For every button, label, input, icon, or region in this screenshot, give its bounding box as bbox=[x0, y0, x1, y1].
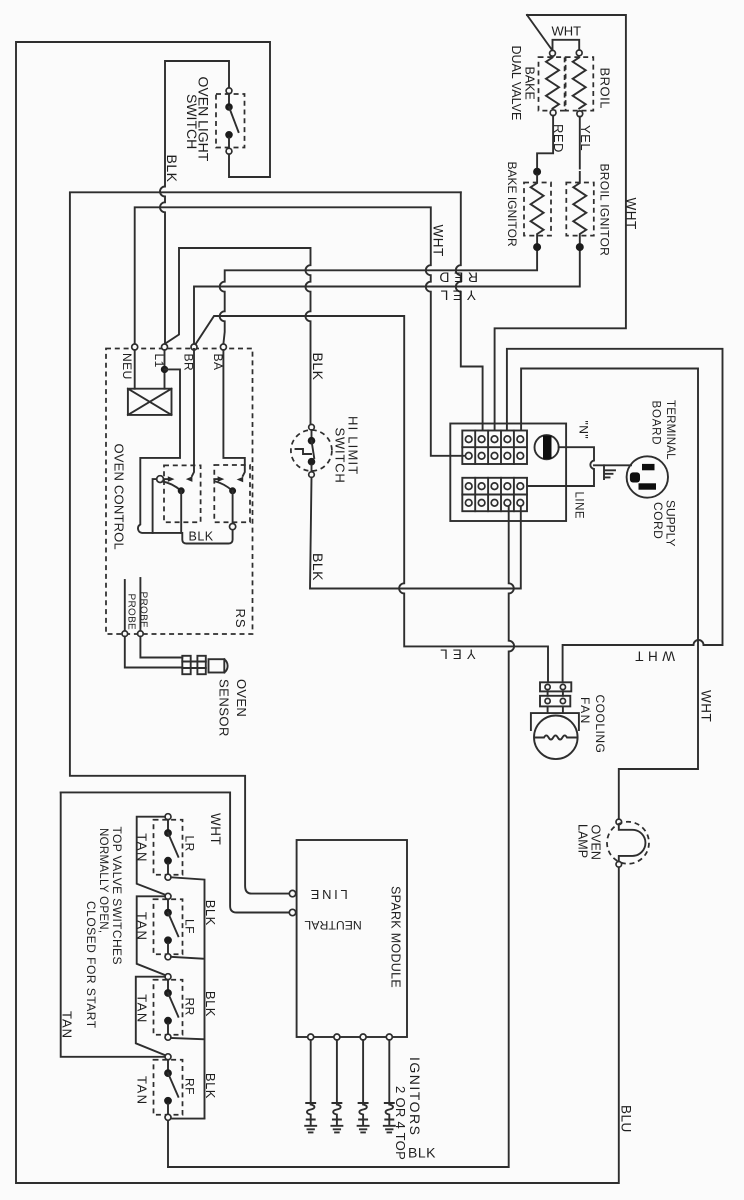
svg-text:TAN: TAN bbox=[60, 1011, 75, 1039]
wire BR into relay 1 with arrow bbox=[192, 349, 194, 476]
wire YEL BR terminal to broil ignitor bbox=[194, 251, 580, 345]
hi-limit switch top terminal bbox=[309, 424, 315, 430]
svg-text:LAMP: LAMP bbox=[576, 824, 590, 858]
valve switch RR wire dot2 to bottom bbox=[167, 1024, 169, 1034]
wire BLK terminal board lower col4 to bottom bus (hops at 588 and fold) bbox=[168, 506, 514, 1167]
svg-text:YEL: YEL bbox=[578, 125, 593, 151]
svg-text:BR: BR bbox=[182, 354, 196, 372]
valve switch LF bottom terminal bbox=[165, 954, 171, 960]
probe terminal 2 bbox=[138, 631, 144, 637]
fan motor leads bbox=[548, 706, 563, 713]
svg-text:2 OR 4 TOP: 2 OR 4 TOP bbox=[393, 1086, 408, 1160]
fan connector links bbox=[548, 691, 563, 695]
valve switch LR bottom terminal bbox=[165, 874, 171, 880]
valve switch RR bottom terminal bbox=[165, 1034, 171, 1040]
wire RF bottom to bottom BLK bus bbox=[167, 1122, 169, 1167]
valve switch LR wire dot2 to bottom bbox=[167, 864, 169, 875]
svg-text:RF: RF bbox=[182, 1078, 196, 1095]
oven control L1 terminal bbox=[162, 344, 168, 350]
svg-text:BLK: BLK bbox=[203, 1073, 218, 1099]
svg-text:BLK: BLK bbox=[310, 553, 326, 581]
cooling fan connector block 2 bbox=[540, 696, 570, 707]
svg-text:BROIL IGNITOR: BROIL IGNITOR bbox=[598, 164, 612, 257]
wire L1 branch to relay commons bbox=[138, 369, 233, 543]
svg-text:CORD: CORD bbox=[651, 502, 665, 539]
strain relief symbol bbox=[604, 465, 615, 479]
relay 1 blade bbox=[163, 482, 182, 491]
wire NEU oven control to terminal board col1 (hops RED,YEL) bbox=[135, 207, 466, 455]
ignitor electrode 3 bbox=[359, 1040, 368, 1103]
wire TAN left bus to RF switch top bbox=[61, 792, 165, 1056]
relay 1 contact dot bbox=[178, 488, 184, 494]
fan connector circles 2 bbox=[545, 698, 550, 703]
oven control NEU terminal bbox=[132, 344, 138, 350]
spark module output terminal 4 bbox=[386, 1034, 392, 1040]
ignitor electrode 2 bbox=[332, 1040, 341, 1103]
spark module box bbox=[297, 840, 407, 1037]
valve switch RF dashed box bbox=[154, 1060, 183, 1115]
wire NEU terminal to transformer bbox=[134, 350, 136, 389]
svg-text:PROBE: PROBE bbox=[125, 594, 136, 631]
valve switch LF contact dot 2 bbox=[165, 937, 172, 944]
valve switch RR contact dot 1 bbox=[165, 990, 172, 997]
valve switch LR contact dot 2 bbox=[165, 857, 172, 864]
oven sensor connector block 2 bbox=[197, 656, 205, 674]
hi-limit switch contact dot 2 bbox=[308, 458, 315, 465]
wire BLU lamp-return loop (lamp bottom, bottom border, left border, top border, light switch) bbox=[16, 42, 619, 1183]
svg-text:"N": "N" bbox=[576, 421, 590, 440]
svg-text:FAN: FAN bbox=[578, 697, 592, 725]
valve switch RF wire to dot1 bbox=[167, 1060, 169, 1070]
svg-text:BA: BA bbox=[211, 354, 225, 371]
broil ignitor dashed box bbox=[566, 183, 594, 236]
wire BA into relay 2 with arrow bbox=[223, 350, 244, 476]
oven control BR terminal bbox=[191, 344, 197, 350]
relay 2 blade bbox=[216, 482, 233, 491]
valve switch RR wire to dot1 bbox=[167, 980, 169, 990]
valve switch LF wire to dot1 bbox=[167, 899, 169, 909]
broil valve terminal top bbox=[576, 50, 582, 56]
oven control dashed box bbox=[106, 349, 253, 635]
wire BLK L1 to hi-limit switch (hops RED,YEL,BR-fan wire) bbox=[165, 248, 311, 424]
valve switch LF contact dot 1 bbox=[165, 909, 172, 916]
spark module output terminal 3 bbox=[360, 1034, 366, 1040]
oven sensor connector block 1 bbox=[182, 656, 190, 674]
wire cord to plug bbox=[594, 464, 631, 466]
svg-text:BAKE: BAKE bbox=[523, 67, 537, 100]
spark module NEUTRAL terminal bbox=[289, 909, 295, 915]
oven lamp filament horseshoe bbox=[619, 825, 646, 862]
valve switch LF blade bbox=[168, 913, 178, 937]
svg-text:OVEN CONTROL: OVEN CONTROL bbox=[112, 444, 127, 550]
svg-text:WHT: WHT bbox=[431, 225, 446, 257]
broil valve dashed box bbox=[566, 57, 594, 111]
hi-limit switch thermal step bbox=[296, 449, 312, 454]
terminal board upper grid bbox=[462, 431, 527, 465]
svg-text:OVEN: OVEN bbox=[588, 825, 602, 860]
terminal board lower grid bbox=[462, 478, 527, 511]
svg-text:BAKE IGNITOR: BAKE IGNITOR bbox=[505, 162, 519, 247]
wire N terminal to cord split bbox=[527, 447, 594, 486]
fan motor circle bbox=[534, 716, 578, 760]
svg-text:LR: LR bbox=[182, 836, 196, 852]
relay 2 fixed lead and arrow bbox=[214, 478, 217, 480]
svg-text:RED: RED bbox=[551, 124, 566, 153]
svg-text:LINE: LINE bbox=[573, 492, 585, 520]
svg-text:SPARK MODULE: SPARK MODULE bbox=[389, 886, 403, 988]
oven light switch bottom terminal bbox=[226, 148, 232, 154]
relay 2 dashed box bbox=[214, 465, 250, 522]
svg-text:YEL: YEL bbox=[436, 288, 476, 304]
svg-text:NEU: NEU bbox=[120, 353, 134, 380]
relay 2 contact drop bbox=[232, 491, 234, 524]
probe stub 2 bbox=[139, 578, 141, 631]
wire L1 terminal through junction to transformer bbox=[164, 350, 166, 389]
oven control BA terminal bbox=[220, 344, 226, 350]
wire BLK bus LF join bbox=[171, 957, 205, 1038]
valve switch RF contact dot 1 bbox=[165, 1070, 172, 1077]
svg-text:RR: RR bbox=[182, 998, 196, 1016]
valve switch LR contact dot 1 bbox=[165, 830, 172, 837]
hi-limit switch wire dot2 to bottom bbox=[311, 465, 313, 472]
probe stub 1 bbox=[124, 580, 126, 631]
oven lamp bottom terminal bbox=[616, 862, 622, 868]
junction dot L1 bbox=[161, 366, 167, 372]
svg-text:LINE: LINE bbox=[308, 887, 348, 902]
wire TAN staircase LF bbox=[137, 896, 166, 975]
bake ignitor bottom junction dot bbox=[534, 244, 541, 251]
oven sensor dome cap bbox=[224, 659, 227, 672]
valve switch RF contact dot 2 bbox=[165, 1097, 172, 1104]
svg-text:BLK: BLK bbox=[310, 353, 326, 381]
valve switch RF wire dot2 to bottom bbox=[167, 1104, 169, 1115]
wire TAN staircase RR bbox=[136, 977, 166, 1056]
oven lamp top terminal bbox=[616, 819, 622, 825]
relay 1 contact drop bbox=[180, 491, 182, 533]
bake valve terminal bottom bbox=[550, 110, 556, 116]
svg-text:TAN: TAN bbox=[135, 1076, 150, 1106]
hi-limit switch wire to dot1 bbox=[311, 430, 313, 438]
wire WHT top border to terminal board col3 bbox=[495, 15, 626, 429]
relay 1 pivot bbox=[157, 476, 164, 483]
broil valve coil bbox=[573, 58, 586, 109]
svg-text:BROIL: BROIL bbox=[598, 68, 613, 110]
wire YEL broil valve to broil ignitor bbox=[579, 117, 581, 169]
valve switch LF dashed box bbox=[154, 899, 183, 954]
svg-text:BLK: BLK bbox=[203, 991, 218, 1017]
bake valve coil bbox=[546, 58, 559, 109]
svg-text:WHT: WHT bbox=[699, 690, 714, 722]
fan motor housing bbox=[531, 713, 579, 730]
wire BLK bus RF join bbox=[171, 1118, 205, 1120]
svg-text:BLU: BLU bbox=[619, 1105, 634, 1133]
broil ignitor bottom junction dot bbox=[576, 244, 583, 251]
oven light switch blade bbox=[229, 107, 239, 132]
valve switch RF top terminal bbox=[165, 1054, 171, 1060]
spark module LINE terminal bbox=[289, 890, 295, 896]
wire probe 1 to oven sensor bbox=[125, 637, 183, 668]
transformer X-box bbox=[128, 389, 172, 415]
ignitor electrode 4 bbox=[385, 1040, 394, 1103]
wire RED bake valve to bake ignitor bbox=[537, 116, 553, 169]
wire TAN staircase LR bbox=[137, 817, 166, 895]
broil ignitor coil bbox=[573, 172, 586, 244]
svg-text:TAN: TAN bbox=[135, 833, 150, 863]
valve switch LR top terminal bbox=[165, 814, 171, 820]
svg-text:WHT: WHT bbox=[631, 649, 675, 664]
N neutral terminal bar bbox=[543, 436, 552, 460]
svg-text:DUAL VALVE: DUAL VALVE bbox=[509, 46, 523, 121]
wire BLK bus RR join bbox=[171, 1038, 205, 1118]
oven light switch contact dot 2 bbox=[226, 132, 233, 139]
wire BLK oven light switch to L1 (hops over WHT,NEU buses) bbox=[160, 61, 229, 344]
wire WHT bus right drop to terminal board col2 (hops RED,YEL) bbox=[456, 192, 483, 429]
wire BLK bus from LR bottom bbox=[171, 877, 205, 957]
svg-text:SENSOR: SENSOR bbox=[216, 679, 231, 737]
relay 1 pivot lead bbox=[153, 479, 157, 533]
svg-text:WHT: WHT bbox=[208, 813, 223, 845]
svg-text:TOP VALVE SWITCHES: TOP VALVE SWITCHES bbox=[110, 827, 124, 965]
hi-limit switch contact dot 1 bbox=[308, 437, 315, 444]
svg-text:TAN: TAN bbox=[135, 994, 150, 1024]
broil valve terminal bottom bbox=[577, 111, 583, 117]
svg-text:TERMINAL: TERMINAL bbox=[664, 400, 676, 460]
oven sensor link wires bbox=[191, 662, 198, 669]
bake valve dashed box bbox=[539, 57, 565, 111]
hi-limit switch dashed circle bbox=[291, 430, 332, 471]
svg-text:WHT: WHT bbox=[624, 198, 639, 230]
fan connector circles 1 bbox=[545, 684, 550, 689]
svg-text:YEL: YEL bbox=[435, 647, 476, 662]
relay 1 moving arrow bbox=[164, 478, 168, 480]
oven lamp dashed circle bbox=[607, 822, 649, 864]
relay 2 bottom terminal bbox=[230, 524, 236, 530]
bake ignitor coil bbox=[531, 175, 544, 244]
svg-text:SWITCH: SWITCH bbox=[332, 428, 347, 484]
valve switch RR dashed box bbox=[154, 980, 183, 1035]
svg-text:BLK: BLK bbox=[408, 1145, 436, 1161]
supply cord plug prong lower bbox=[639, 483, 657, 489]
wire dual valve top WHT loop bbox=[553, 40, 580, 51]
cooling fan connector block 1 bbox=[540, 682, 571, 691]
spark module output terminal 2 bbox=[334, 1034, 340, 1040]
valve switch RR contact dot 2 bbox=[165, 1017, 172, 1024]
svg-text:RS: RS bbox=[233, 609, 248, 629]
fan motor winding squiggle bbox=[535, 735, 577, 739]
valve switch LR dashed box bbox=[154, 820, 183, 875]
bake ignitor dashed box bbox=[524, 183, 551, 236]
supply cord plug circle bbox=[627, 456, 668, 497]
relay 2 contact dot bbox=[230, 488, 236, 494]
svg-text:COOLING: COOLING bbox=[593, 695, 607, 754]
oven light switch wire to dot1 bbox=[228, 94, 230, 104]
terminal board outer box bbox=[450, 424, 566, 522]
valve switch LF top terminal bbox=[165, 893, 171, 899]
svg-text:WHT: WHT bbox=[552, 24, 582, 39]
wire probe 2 to oven sensor bbox=[140, 637, 182, 658]
wire WHT bus with left drop to spark module LINE bbox=[70, 192, 461, 893]
wire WHT terminal board col5 to oven lamp top bbox=[521, 369, 698, 820]
supply cord plug ground blob bbox=[630, 472, 640, 482]
wire WHT terminal board col4 right loop to cooling fan right (hop at x698) bbox=[507, 349, 723, 682]
svg-text:SWITCH: SWITCH bbox=[184, 94, 200, 149]
hi-limit switch bottom terminal bbox=[309, 472, 315, 478]
valve switch LF wire dot2 to bottom bbox=[167, 943, 169, 954]
svg-text:PROBE: PROBE bbox=[137, 592, 148, 629]
valve switch RF bottom terminal bbox=[165, 1114, 171, 1120]
svg-text:BLK: BLK bbox=[189, 530, 214, 544]
svg-text:LF: LF bbox=[182, 919, 196, 934]
bake ignitor top junction dot bbox=[534, 168, 541, 175]
bake valve terminal top bbox=[550, 50, 556, 56]
valve switch LR wire to dot1 bbox=[167, 820, 169, 830]
ignitor electrode 1 bbox=[306, 1040, 315, 1103]
svg-text:L1: L1 bbox=[152, 354, 166, 368]
valve switch RR blade bbox=[168, 993, 178, 1017]
wire RED BA terminal to bake ignitor (hops on BA vertical) bbox=[220, 251, 537, 345]
valve switch RF blade bbox=[168, 1073, 178, 1097]
oven light switch dashed box bbox=[216, 94, 245, 148]
supply cord plug prong upper bbox=[642, 464, 655, 470]
oven light switch contact dot 1 bbox=[226, 104, 233, 111]
wire WHT to spark module NEUTRAL from TAN corner bbox=[61, 792, 290, 912]
svg-text:BOARD: BOARD bbox=[650, 401, 662, 446]
valve switch RR top terminal bbox=[165, 974, 171, 980]
svg-text:BLK: BLK bbox=[164, 155, 180, 183]
wire YEL BR terminal to cooling fan left (hops at 588, crosses fold) bbox=[194, 316, 548, 682]
svg-text:TAN: TAN bbox=[135, 912, 150, 942]
svg-text:NEUTRAL: NEUTRAL bbox=[304, 918, 362, 932]
relay 1 dashed box bbox=[164, 465, 201, 522]
svg-text:RED: RED bbox=[435, 270, 478, 286]
spark module output terminal 1 bbox=[308, 1034, 314, 1040]
oven light switch wire dot2 to bottom terminal bbox=[228, 138, 230, 148]
probe terminal 1 bbox=[122, 631, 128, 637]
svg-text:OVEN: OVEN bbox=[234, 679, 249, 717]
svg-text:BLK: BLK bbox=[203, 900, 218, 926]
valve switch LR blade bbox=[168, 833, 178, 857]
wire diagonal top corner to dual valve WHT node bbox=[527, 15, 553, 51]
svg-text:IGNITORS: IGNITORS bbox=[407, 1057, 423, 1136]
hi-limit switch blade bbox=[312, 441, 315, 458]
oven light switch top terminal bbox=[226, 88, 232, 94]
svg-text:CLOSED FOR START: CLOSED FOR START bbox=[84, 901, 98, 1029]
N neutral terminal circle bbox=[535, 435, 559, 459]
oven sensor body bbox=[209, 659, 225, 672]
wire BLK hi-limit bottom to terminal board lower col5 bbox=[310, 477, 521, 588]
